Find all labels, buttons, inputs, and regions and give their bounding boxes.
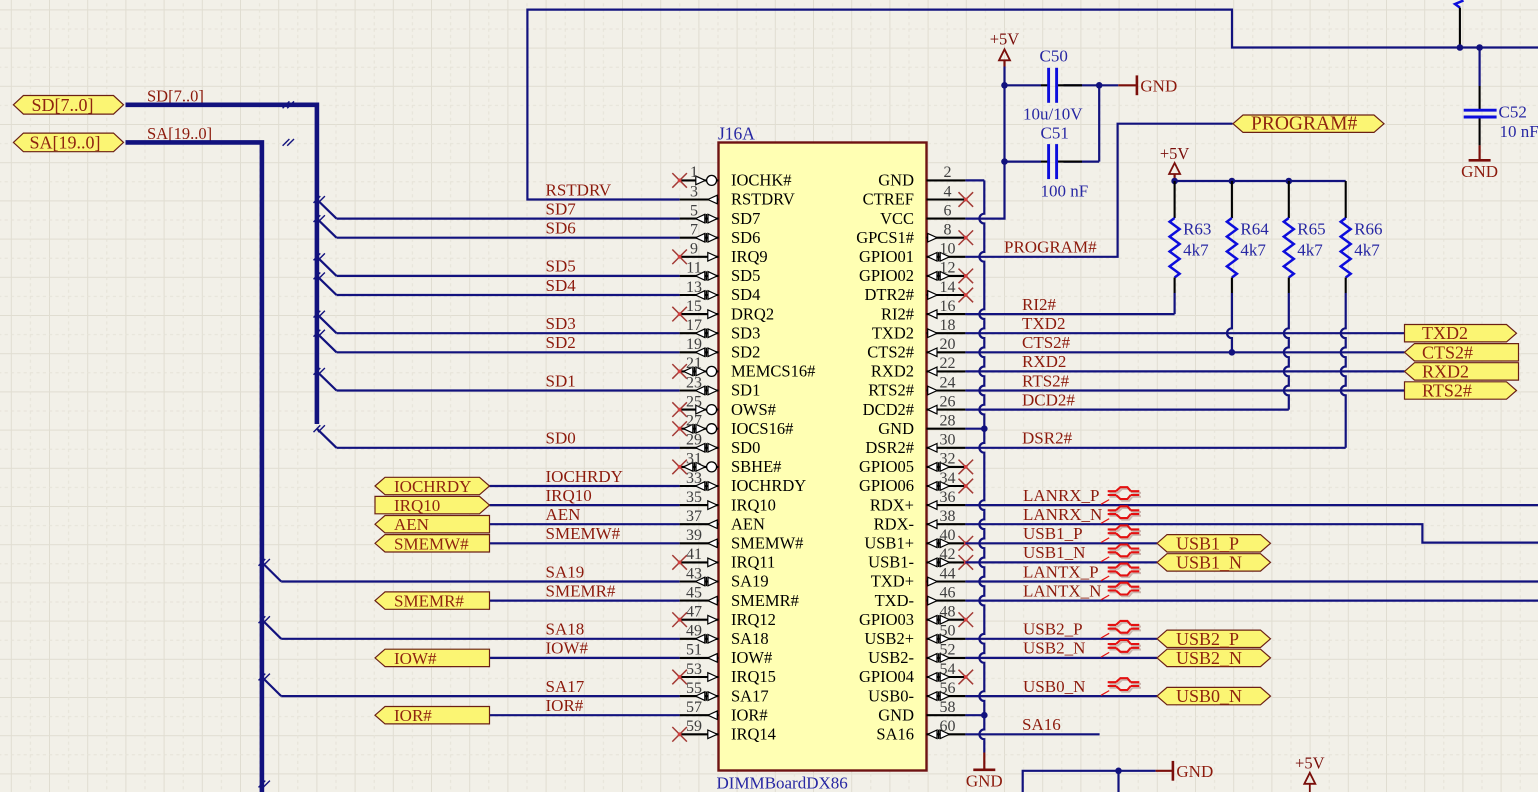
net label SA18 [546, 620, 585, 639]
designator R65 [1297, 220, 1325, 239]
value 4k7 (R65) [1297, 241, 1323, 260]
svg-text:SD1: SD1 [731, 381, 760, 400]
svg-text:SD2: SD2 [546, 333, 576, 352]
wire LANTX_N [965, 599, 1538, 601]
net label CTS2# [1022, 333, 1071, 352]
svg-text:RXD2: RXD2 [1022, 352, 1066, 371]
designator J16A [718, 124, 755, 144]
bus SA[19..0] [126, 142, 262, 792]
svg-text:SD4: SD4 [731, 285, 760, 304]
port SMEMR# [375, 592, 490, 611]
port USB2_N [1157, 648, 1271, 668]
svg-text:GND: GND [1140, 76, 1177, 95]
wire +5V rail [1171, 174, 1345, 185]
wire C52 branch [1478, 48, 1480, 87]
svg-text:SMEMR#: SMEMR# [546, 581, 616, 600]
svg-text:CTS2#: CTS2# [1022, 333, 1071, 352]
resistor R64 4k7 [1227, 181, 1237, 356]
svg-text:5: 5 [690, 202, 698, 219]
svg-text:SMEMR#: SMEMR# [731, 591, 799, 610]
svg-text:USB2-: USB2- [868, 648, 914, 667]
svg-text:53: 53 [686, 661, 702, 678]
svg-text:USB1_N: USB1_N [1023, 543, 1085, 562]
svg-text:54: 54 [940, 661, 956, 678]
svg-text:36: 36 [940, 489, 956, 506]
svg-text:GPIO05: GPIO05 [859, 457, 914, 476]
svg-text:DSR2#: DSR2# [1022, 429, 1073, 448]
svg-text:C52: C52 [1499, 102, 1527, 121]
svg-text:SD0: SD0 [731, 438, 760, 457]
port USB1_N [1157, 552, 1271, 572]
designator R64 [1240, 220, 1269, 239]
ground GND (bottom middle) [1156, 761, 1214, 781]
diff pair marker LANRX_N [1101, 506, 1141, 523]
port IOCHRDY [375, 477, 490, 496]
svg-text:GPIO06: GPIO06 [859, 476, 914, 495]
svg-text:GND: GND [878, 171, 914, 190]
wire IOCHRDY [490, 485, 680, 487]
svg-text:9: 9 [690, 241, 698, 258]
svg-text:TXD2: TXD2 [1022, 314, 1065, 333]
net label SD3 [546, 314, 576, 333]
svg-text:TXD-: TXD- [875, 591, 914, 610]
svg-text:RTS2#: RTS2# [1422, 381, 1472, 401]
pin 44 TXD+ [871, 565, 966, 590]
pin 36 RDX+ [870, 489, 966, 514]
bus entry ticks SA port [283, 139, 294, 146]
capacitor C51 leads [1041, 161, 1082, 163]
svg-text:10: 10 [940, 241, 956, 258]
svg-text:20: 20 [940, 336, 956, 353]
svg-text:40: 40 [940, 527, 956, 544]
pin 25 OWS# [672, 393, 776, 418]
svg-text:IOR#: IOR# [546, 696, 584, 715]
resistor (partial, top edge) [1455, 1, 1464, 48]
svg-text:52: 52 [940, 642, 956, 659]
svg-text:LANRX_P: LANRX_P [1023, 486, 1100, 505]
svg-text:+5V: +5V [990, 30, 1020, 49]
diff pair marker LANRX_P [1101, 487, 1141, 504]
port IRQ10 [375, 496, 490, 515]
pin 2 GND [878, 164, 965, 189]
ground GND (C50 row) [1099, 75, 1177, 95]
net label TXD2 [1022, 314, 1065, 333]
port CTS2# [1405, 342, 1519, 362]
svg-text:42: 42 [940, 546, 956, 563]
svg-text:SMEMW#: SMEMW# [731, 534, 803, 553]
svg-text:IOCHK#: IOCHK# [731, 171, 792, 190]
wire GND net vertical [965, 180, 987, 752]
svg-text:4k7: 4k7 [1240, 241, 1266, 260]
pin 8 GPCS1# [856, 222, 973, 247]
wire RTS2# [965, 389, 1404, 391]
net label PROGRAM# [1004, 238, 1097, 257]
pin 4 CTREF [863, 183, 973, 208]
svg-text:GPIO04: GPIO04 [859, 667, 914, 686]
designator R66 [1354, 220, 1382, 239]
svg-text:37: 37 [686, 508, 702, 525]
svg-text:12: 12 [940, 260, 956, 277]
svg-text:SD7: SD7 [546, 199, 577, 218]
svg-text:AEN: AEN [394, 515, 429, 534]
wire TXD2 [965, 332, 1404, 334]
net label IOW# [546, 639, 589, 658]
svg-text:AEN: AEN [546, 505, 581, 524]
value 4k7 (R64) [1240, 241, 1266, 260]
svg-text:USB0_N: USB0_N [1176, 686, 1242, 706]
svg-text:R66: R66 [1354, 220, 1382, 239]
net label LANTX_P [1023, 562, 1099, 581]
svg-text:AEN: AEN [731, 514, 765, 533]
svg-text:SMEMW#: SMEMW# [546, 524, 621, 543]
pin 28 GND [878, 413, 965, 438]
pin 10 GPIO01 [859, 241, 965, 266]
svg-text:58: 58 [940, 699, 956, 716]
net label SD7 [546, 199, 577, 218]
net label SA16 [1022, 715, 1061, 734]
diff pair marker USB1_N [1101, 545, 1141, 562]
bus label SD[7..0] [147, 87, 204, 106]
svg-text:32: 32 [940, 451, 956, 468]
svg-text:49: 49 [686, 623, 702, 640]
pin 17 SD3 [680, 317, 761, 342]
svg-text:11: 11 [686, 260, 701, 277]
svg-text:DSR2#: DSR2# [865, 438, 914, 457]
pin 33 IOCHRDY [680, 470, 807, 495]
pin 24 RTS2# [868, 374, 965, 399]
svg-text:39: 39 [686, 527, 702, 544]
svg-text:GPIO01: GPIO01 [859, 247, 914, 266]
wire USB1_N [965, 561, 1157, 563]
svg-text:34: 34 [940, 470, 956, 487]
pin 32 GPIO05 [859, 451, 973, 476]
net label DCD2# [1022, 390, 1075, 409]
designator C51 [1041, 124, 1069, 143]
svg-text:PROGRAM#: PROGRAM# [1251, 114, 1357, 135]
net label RSTDRV [546, 180, 612, 199]
net label LANRX_P [1023, 486, 1100, 505]
svg-text:GND: GND [1176, 762, 1213, 781]
svg-text:SD5: SD5 [731, 266, 760, 285]
pin 56 USB0- [868, 680, 965, 705]
svg-text:SD5: SD5 [546, 257, 576, 276]
port SD[7..0] [13, 95, 123, 115]
svg-text:6: 6 [944, 202, 952, 219]
svg-text:LANTX_N: LANTX_N [1023, 581, 1101, 600]
designator C52 [1499, 102, 1527, 121]
wire bottom GND bus [1023, 768, 1156, 792]
designator R63 [1183, 220, 1211, 239]
svg-text:USB1-: USB1- [868, 553, 914, 572]
svg-text:45: 45 [686, 584, 702, 601]
net label RI2# [1022, 295, 1057, 314]
pin 35 IRQ10 [680, 489, 776, 514]
svg-text:18: 18 [940, 317, 956, 334]
pin 41 IRQ11 [672, 546, 775, 571]
wire IOW# [490, 657, 680, 659]
resistor R63 4k7 [1170, 181, 1180, 314]
pin 60 SA16 [876, 718, 965, 743]
svg-text:29: 29 [686, 432, 702, 449]
svg-text:1: 1 [690, 164, 698, 181]
port USB2_P [1157, 629, 1271, 649]
bus entry + wire SD7 [314, 196, 680, 219]
net label SD5 [546, 257, 576, 276]
diff pair marker LANTX_N [1101, 583, 1141, 600]
svg-text:SA17: SA17 [731, 686, 769, 705]
svg-text:IOCHRDY: IOCHRDY [731, 476, 806, 495]
svg-text:SD6: SD6 [731, 228, 760, 247]
bus entry + wire SA19 [259, 559, 680, 582]
svg-text:USB2_N: USB2_N [1176, 648, 1242, 668]
pin 31 SBHE# [672, 451, 781, 476]
net label USB0_N [1023, 677, 1085, 696]
pin 15 DRQ2 [672, 298, 774, 323]
svg-text:SA[19..0]: SA[19..0] [30, 132, 101, 152]
junction dots +5V top rail [1457, 44, 1483, 51]
svg-text:TXD2: TXD2 [872, 323, 914, 342]
svg-text:IOCHRDY: IOCHRDY [394, 477, 471, 496]
net label SMEMR# [546, 581, 616, 600]
power +5V (top) [990, 30, 1020, 61]
bus label SA[19..0] [147, 124, 212, 143]
wire LANTX_P [965, 580, 1538, 582]
bus entry ticks SD port [283, 101, 294, 108]
svg-text:IOW#: IOW# [394, 649, 437, 668]
pin 37 AEN [680, 508, 765, 533]
pin 21 MEMCS16# [672, 355, 815, 380]
svg-text:RXD2: RXD2 [1422, 361, 1469, 381]
port PROGRAM# [1233, 114, 1384, 135]
svg-text:RDX+: RDX+ [870, 495, 914, 514]
svg-text:SMEMR#: SMEMR# [394, 592, 464, 611]
svg-text:SD3: SD3 [546, 314, 576, 333]
diff pair marker USB0_N [1101, 678, 1141, 695]
svg-text:47: 47 [686, 604, 702, 621]
svg-text:33: 33 [686, 470, 702, 487]
svg-text:USB0_N: USB0_N [1023, 677, 1085, 696]
wire pin58 GND [965, 714, 984, 716]
port IOW# [375, 649, 490, 668]
net label USB2_P [1023, 620, 1083, 639]
svg-text:GPIO03: GPIO03 [859, 610, 914, 629]
svg-text:48: 48 [940, 604, 956, 621]
capacitor C50 [1049, 68, 1057, 103]
svg-text:RDX-: RDX- [874, 514, 914, 533]
svg-text:USB2_N: USB2_N [1023, 639, 1085, 658]
net label IOCHRDY [546, 467, 623, 486]
pin 12 GPIO02 [859, 260, 973, 285]
svg-text:51: 51 [686, 642, 702, 659]
svg-text:8: 8 [944, 222, 952, 239]
svg-text:DCD2#: DCD2# [1022, 390, 1075, 409]
svg-text:SD2: SD2 [731, 343, 760, 362]
pin 19 SD2 [680, 336, 761, 361]
bus entry + wire SD0 [314, 425, 680, 448]
svg-text:IOW#: IOW# [731, 648, 772, 667]
svg-text:SD4: SD4 [546, 276, 577, 295]
svg-text:SD3: SD3 [731, 323, 760, 342]
svg-text:IRQ10: IRQ10 [394, 496, 440, 515]
svg-text:IRQ9: IRQ9 [731, 247, 768, 266]
svg-text:DRQ2: DRQ2 [731, 304, 774, 323]
wire SMEMW# [490, 542, 680, 544]
svg-text:SA16: SA16 [1022, 715, 1061, 734]
svg-text:USB1+: USB1+ [864, 534, 914, 553]
svg-text:MEMCS16#: MEMCS16# [731, 362, 815, 381]
pin 29 SD0 [680, 432, 761, 457]
svg-text:IRQ14: IRQ14 [731, 725, 776, 744]
pin 22 RXD2 [871, 355, 965, 380]
port USB1_P [1157, 533, 1271, 553]
svg-text:IRQ10: IRQ10 [731, 495, 776, 514]
wire AEN [490, 523, 680, 525]
resistor R66 4k7 [1341, 181, 1351, 448]
svg-text:SD0: SD0 [546, 429, 576, 448]
port USB0_N [1157, 686, 1271, 706]
svg-text:GPIO02: GPIO02 [859, 266, 914, 285]
net label USB1_P [1023, 524, 1083, 543]
svg-text:SA19: SA19 [731, 572, 769, 591]
pin 50 USB2+ [864, 623, 965, 648]
svg-text:13: 13 [686, 279, 702, 296]
net label USB2_N [1023, 639, 1085, 658]
svg-text:SMEMW#: SMEMW# [394, 534, 469, 553]
svg-text:24: 24 [940, 374, 956, 391]
bus entry + wire SA18 [259, 616, 680, 639]
pin 57 IOR# [680, 699, 768, 724]
pin 53 IRQ15 [672, 661, 776, 686]
svg-text:14: 14 [940, 279, 956, 296]
pin 51 IOW# [680, 642, 773, 667]
pin 7 SD6 [680, 222, 761, 247]
svg-text:IOR#: IOR# [731, 705, 768, 724]
port RTS2# [1405, 381, 1517, 401]
svg-text:60: 60 [940, 718, 956, 735]
net label SD2 [546, 333, 576, 352]
pin 23 SD1 [680, 374, 761, 399]
capacitor C52 [1464, 110, 1497, 117]
svg-text:USB1_P: USB1_P [1023, 524, 1083, 543]
wire USB2_P [965, 638, 1157, 640]
svg-text:+5V: +5V [1160, 144, 1190, 163]
svg-text:27: 27 [686, 413, 702, 430]
svg-text:16: 16 [940, 298, 956, 315]
svg-text:RSTDRV: RSTDRV [731, 190, 795, 209]
svg-text:59: 59 [686, 718, 702, 735]
pin 11 SD5 [680, 260, 761, 285]
svg-text:31: 31 [686, 451, 702, 468]
pin 52 USB2- [868, 642, 965, 667]
svg-text:RI2#: RI2# [1022, 295, 1057, 314]
pin 13 SD4 [680, 279, 761, 304]
ground GND (C52) [1461, 145, 1498, 180]
wire CTS2# [965, 351, 1404, 353]
svg-text:55: 55 [686, 680, 702, 697]
svg-text:4: 4 [944, 183, 952, 200]
pin 30 DSR2# [865, 432, 965, 457]
svg-text:IOCS16#: IOCS16# [731, 419, 793, 438]
port RXD2 [1405, 361, 1519, 381]
svg-text:GND: GND [878, 419, 914, 438]
pin 26 DCD2# [863, 393, 966, 418]
pin 16 RI2# [881, 298, 965, 323]
bus entry + wire SD6 [314, 215, 680, 238]
bus entry + wire SD2 [314, 330, 680, 353]
net label SD6 [546, 219, 576, 238]
net label LANRX_N [1023, 505, 1102, 524]
pin 48 GPIO03 [859, 604, 973, 629]
svg-text:TXD+: TXD+ [871, 572, 914, 591]
capacitor C52 leads [1479, 86, 1481, 145]
svg-text:SA16: SA16 [876, 725, 914, 744]
svg-text:CTS2#: CTS2# [867, 343, 914, 362]
wire C50 row [1005, 82, 1103, 89]
svg-text:GPCS1#: GPCS1# [856, 228, 914, 247]
svg-text:2: 2 [944, 164, 952, 181]
svg-text:+5V: +5V [1295, 754, 1325, 773]
pin 14 DTR2# [865, 279, 974, 304]
svg-text:SA17: SA17 [546, 677, 585, 696]
wire pin28 GND [965, 428, 984, 430]
svg-text:CTS2#: CTS2# [1422, 342, 1473, 362]
wire IRQ10 [490, 504, 680, 506]
svg-text:56: 56 [940, 680, 956, 697]
pin 42 USB1- [868, 546, 973, 571]
wire IOR# [490, 714, 680, 716]
net label SD0 [546, 429, 576, 448]
svg-text:LANTX_P: LANTX_P [1023, 562, 1099, 581]
bus entry ticks SA bottom [259, 781, 270, 788]
svg-text:SA18: SA18 [546, 620, 585, 639]
pin 59 IRQ14 [672, 718, 776, 743]
svg-text:10 nF: 10 nF [1500, 122, 1538, 141]
svg-text:USB2_P: USB2_P [1176, 629, 1239, 649]
net label SA19 [546, 562, 585, 581]
svg-text:SBHE#: SBHE# [731, 457, 781, 476]
wire SA16 [965, 733, 1099, 735]
svg-text:23: 23 [686, 374, 702, 391]
svg-text:15: 15 [686, 298, 702, 315]
bus entry + wire SD5 [314, 253, 680, 276]
svg-text:OWS#: OWS# [731, 400, 776, 419]
svg-text:35: 35 [686, 489, 702, 506]
svg-text:RI2#: RI2# [881, 304, 914, 323]
svg-text:GND: GND [1461, 162, 1498, 181]
value 4k7 (R66) [1354, 241, 1380, 260]
net label AEN [546, 505, 581, 524]
pin 43 SA19 [680, 565, 769, 590]
net label SD4 [546, 276, 577, 295]
pin 5 SD7 [680, 202, 761, 227]
svg-text:SA18: SA18 [731, 629, 769, 648]
svg-text:17: 17 [686, 317, 702, 334]
svg-text:100 nF: 100 nF [1041, 182, 1089, 201]
svg-text:19: 19 [686, 336, 702, 353]
svg-text:SD[7..0]: SD[7..0] [32, 95, 94, 115]
net label RTS2# [1022, 371, 1070, 390]
port IOR# [375, 706, 490, 725]
component J16A DIMMBoardDX86 body [719, 143, 927, 771]
net label USB1_N [1023, 543, 1085, 562]
net label RXD2 [1022, 352, 1066, 371]
svg-text:SA19: SA19 [546, 562, 585, 581]
wire USB0_N [965, 695, 1157, 697]
value 10u/10V [1023, 105, 1083, 124]
svg-text:IRQ10: IRQ10 [546, 486, 592, 505]
wire RSTDRV top [527, 10, 1538, 200]
svg-text:R64: R64 [1240, 220, 1269, 239]
